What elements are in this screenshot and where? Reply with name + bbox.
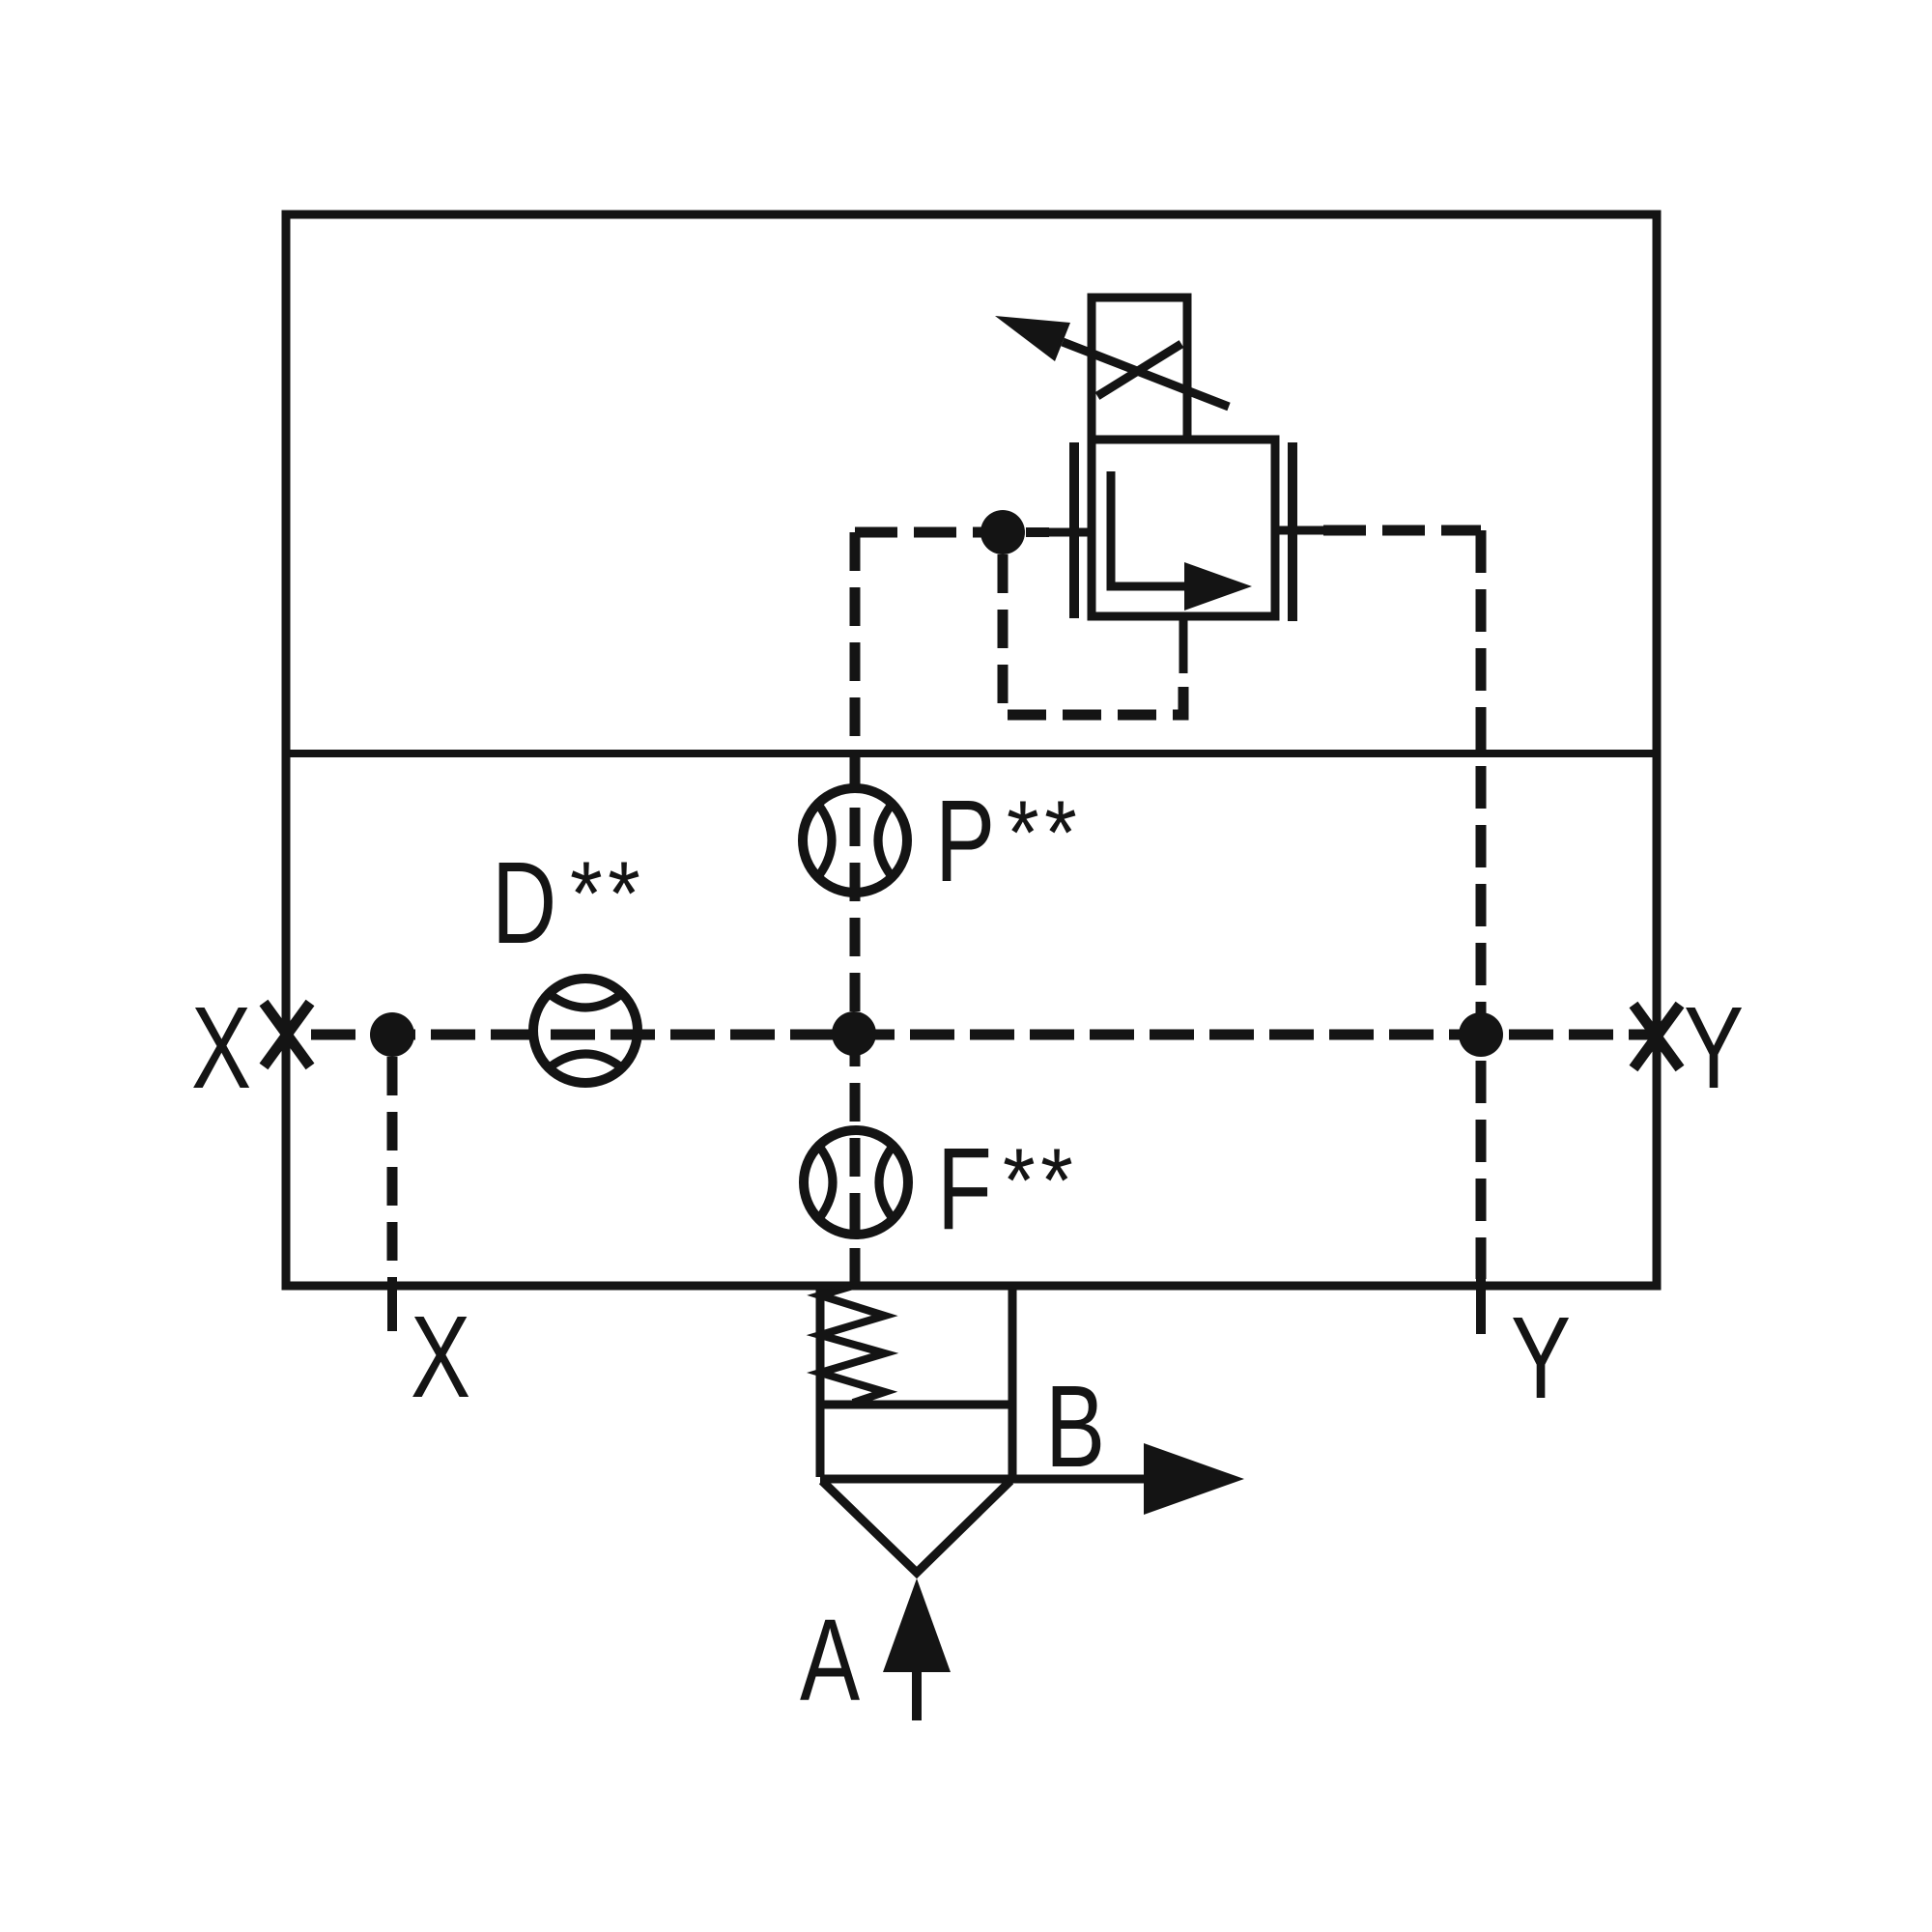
junction dot left xyxy=(370,1012,414,1057)
right pilot port tick xyxy=(1275,526,1323,535)
X-Y pilot gallery line (dashed) xyxy=(311,1030,1652,1040)
adjustment arrow head xyxy=(995,316,1070,361)
poppet seat / port B line xyxy=(820,1475,1148,1484)
svg-text:**: ** xyxy=(570,843,645,945)
svg-text:**: ** xyxy=(1007,782,1082,884)
pilot line right run (dashed) xyxy=(1323,526,1481,536)
port A arrow stem xyxy=(912,1672,922,1720)
port A arrow xyxy=(883,1578,951,1672)
pilot line solid link to tick xyxy=(1026,527,1049,537)
junction dot at pilot line xyxy=(980,510,1025,554)
adjustment arrow shaft xyxy=(1063,342,1229,407)
poppet spring xyxy=(820,1286,885,1403)
spring seat line xyxy=(820,1401,1012,1409)
X port crossing solid segment xyxy=(387,1277,397,1331)
Y port crossing solid segment xyxy=(1476,1279,1486,1334)
svg-text:X: X xyxy=(191,981,251,1113)
poppet valve body right xyxy=(1009,1286,1017,1477)
orifice P** xyxy=(803,788,907,893)
svg-text:B: B xyxy=(1045,1360,1105,1492)
X drop line (dashed) xyxy=(387,1057,398,1277)
port B arrow head xyxy=(1144,1443,1244,1515)
throttle cross line xyxy=(1097,344,1181,396)
poppet valve body left xyxy=(816,1286,825,1477)
junction dot right xyxy=(1459,1012,1503,1057)
manifold block outline xyxy=(286,214,1657,1286)
orifice D** xyxy=(533,979,638,1083)
port X plug cross xyxy=(264,1003,310,1066)
Y pilot drop line (dashed) xyxy=(1476,530,1487,1279)
block section divider xyxy=(286,750,1657,757)
relief valve flow arrow xyxy=(1111,471,1190,586)
left spring seat bar xyxy=(1069,442,1079,618)
svg-text:P: P xyxy=(935,775,995,906)
svg-text:D: D xyxy=(492,837,556,968)
svg-text:Y: Y xyxy=(1511,1292,1571,1423)
right spring seat bar xyxy=(1288,442,1297,621)
svg-text:F: F xyxy=(937,1122,992,1254)
relief valve flow arrow head xyxy=(1184,562,1252,611)
orifice F** xyxy=(804,1130,908,1235)
svg-text:X: X xyxy=(411,1291,470,1422)
drain stub xyxy=(1179,616,1188,673)
junction dot middle xyxy=(832,1011,876,1056)
svg-text:A: A xyxy=(800,1594,860,1725)
svg-text:Y: Y xyxy=(1684,981,1744,1113)
pilot line to valve (dashed left run) xyxy=(855,527,987,538)
svg-text:**: ** xyxy=(1003,1130,1078,1232)
left pilot port tick xyxy=(1047,528,1092,537)
poppet cone xyxy=(822,1481,1010,1573)
port Y plug cross xyxy=(1634,1005,1680,1068)
pilot valve adjustment box xyxy=(1092,298,1187,440)
drain pilot dashed loop xyxy=(1003,554,1183,715)
vertical pilot line through orifices (dashed) xyxy=(850,532,861,1286)
pilot relief valve body xyxy=(1092,440,1275,616)
